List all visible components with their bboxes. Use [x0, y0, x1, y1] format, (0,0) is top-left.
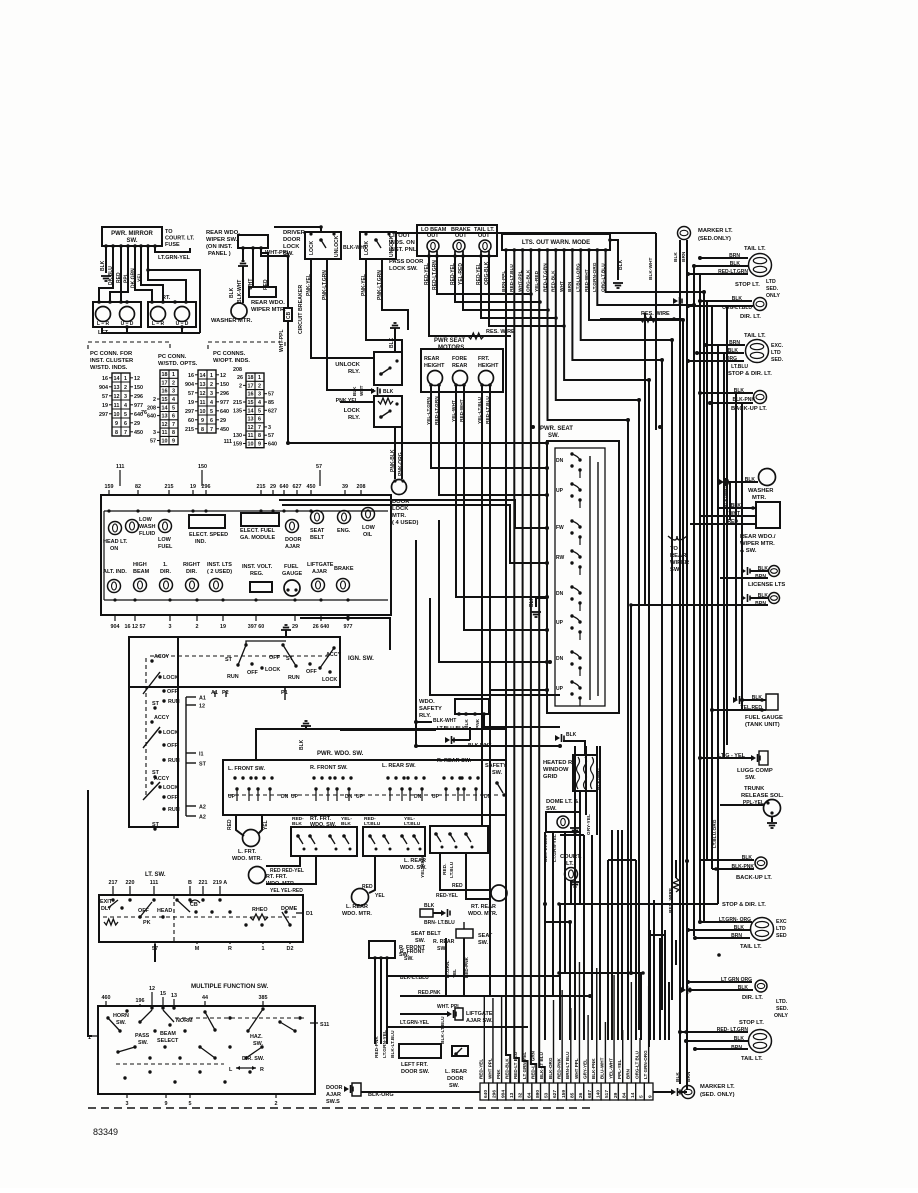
svg-text:FUEL GAUGE: FUEL GAUGE [745, 715, 783, 721]
svg-text:627: 627 [268, 408, 277, 414]
wire blk tail4 [686, 1040, 748, 1042]
svg-text:L – R: L – R [97, 321, 110, 327]
svg-text:RIGHT: RIGHT [183, 562, 201, 568]
cluster bus junction [282, 509, 285, 512]
wire right vertical 6 [723, 353, 725, 758]
cluster bulb L DIR [160, 579, 173, 592]
wire bundle RED-WHT [589, 250, 683, 989]
lights out warning module box [502, 234, 610, 250]
heated rear window grid box [573, 755, 597, 791]
connector grid blk [555, 734, 564, 742]
power mirror switch SW [102, 227, 162, 246]
seat switch internal bus 2 [597, 462, 599, 696]
safety switch blade [495, 781, 503, 793]
svg-text:8: 8 [201, 427, 204, 433]
module pin ORG-BLK [529, 248, 533, 252]
svg-text:STOP LT.: STOP LT. [735, 282, 760, 288]
wire blk-pnk [710, 402, 753, 404]
ground dome [570, 828, 580, 833]
svg-text:16 12 57: 16 12 57 [125, 624, 146, 630]
wire RED [120, 246, 122, 302]
wire weave 13 [544, 973, 546, 1040]
svg-text:RT. REAR: RT. REAR [471, 904, 496, 910]
svg-text:PNK-LT.GRN: PNK-LT.GRN [377, 270, 383, 300]
svg-text:WIPER: WIPER [670, 560, 690, 566]
svg-text:GRID: GRID [543, 774, 558, 780]
svg-text:17: 17 [248, 383, 254, 389]
ignition contact [328, 670, 331, 673]
svg-text:LT.BLU: LT.BLU [449, 861, 455, 878]
svg-text:29: 29 [270, 484, 276, 490]
svg-text:LT.BLU: LT.BLU [731, 364, 748, 370]
cluster bus junction [195, 598, 198, 601]
svg-text:LOCK: LOCK [163, 785, 178, 791]
cluster bus junction [168, 598, 171, 601]
svg-text:10: 10 [162, 439, 168, 445]
trunk release solenoid [764, 800, 781, 817]
tail lamp 4 [749, 1030, 772, 1053]
svg-text:CIRCUIT BREAKER: CIRCUIT BREAKER [298, 285, 304, 334]
wire top feed lock switches [274, 227, 321, 232]
connector dir [681, 986, 690, 994]
svg-text:DOOR: DOOR [285, 537, 302, 543]
cluster bus junction [167, 509, 170, 512]
svg-text:14: 14 [200, 373, 206, 379]
wire cluster 977 tap right [300, 618, 390, 650]
mfs blade [108, 1018, 120, 1031]
svg-text:16: 16 [162, 389, 168, 395]
svg-text:(SED. ONLY): (SED. ONLY) [700, 1092, 735, 1098]
svg-text:SW.: SW. [478, 940, 489, 946]
seat motor pin [488, 383, 492, 387]
rear window wiper switch box [238, 235, 268, 248]
wire mid drops [374, 958, 376, 1035]
svg-text:57: 57 [102, 394, 108, 400]
wire red left [236, 815, 244, 836]
svg-text:PNK-LT.GRN: PNK-LT.GRN [322, 270, 328, 300]
svg-text:13: 13 [162, 414, 168, 420]
module pin LT.BLU-ORG [579, 248, 583, 252]
svg-text:SW.: SW. [670, 567, 681, 573]
connector pin [184, 300, 188, 304]
svg-text:7: 7 [258, 425, 261, 431]
svg-text:OFF: OFF [269, 655, 280, 661]
wire blk seat gnd [536, 598, 547, 607]
svg-text:MOTORS: MOTORS [438, 345, 464, 351]
svg-text:UP: UP [432, 794, 440, 800]
svg-text:AJAR: AJAR [285, 544, 300, 550]
wire weave jog 4 [545, 921, 570, 923]
l rear window switch box [363, 827, 425, 856]
dashed accessory line [150, 655, 330, 657]
wire stub [181, 327, 183, 333]
cluster bus junction [204, 509, 207, 512]
svg-text:5: 5 [189, 1101, 192, 1107]
wire sol gnd [771, 816, 773, 822]
l rear window motor [352, 889, 369, 906]
svg-text:OFF: OFF [167, 743, 178, 749]
svg-text:NORM: NORM [176, 1018, 193, 1024]
ignition contact [294, 664, 297, 667]
wire blk tail3 [688, 929, 750, 931]
svg-text:215: 215 [185, 427, 194, 433]
wire indicator 1b [437, 256, 531, 294]
svg-text:220: 220 [126, 880, 135, 886]
cluster bus junction [319, 598, 322, 601]
svg-text:76: 76 [141, 410, 147, 416]
svg-text:15: 15 [160, 991, 166, 997]
wire seat belt [433, 912, 441, 914]
wire weave 3 [559, 904, 561, 1040]
wire weave 7 [607, 860, 609, 1040]
ground above unlock relay [390, 323, 400, 328]
connector table PC CONNS w/opt left [185, 370, 229, 433]
wire grid top [563, 741, 585, 755]
svg-text:L. REAR SW.: L. REAR SW. [382, 763, 416, 769]
svg-text:BLK-LT.BLU: BLK-LT.BLU [400, 975, 429, 981]
svg-text:57: 57 [150, 439, 156, 445]
svg-text:ELECT. SPEED: ELECT. SPEED [189, 532, 228, 538]
svg-text:( 4 USED): ( 4 USED) [392, 520, 418, 526]
svg-text:WHT. PPL: WHT. PPL [437, 1004, 460, 1010]
res element vertical [673, 878, 679, 892]
svg-text:P1: P1 [281, 690, 288, 696]
wire lt sw drop 57 [154, 944, 156, 962]
svg-text:26: 26 [237, 375, 243, 381]
svg-text:ST: ST [225, 657, 233, 663]
wire red lt grn 2 [680, 1031, 748, 1033]
svg-text:CB: CB [190, 902, 198, 908]
svg-text:215: 215 [233, 400, 242, 406]
wire weave 4 [569, 922, 571, 1040]
svg-text:296: 296 [202, 484, 211, 490]
svg-text:297: 297 [99, 412, 108, 418]
wiper sw pin [251, 246, 255, 250]
seat motor fore rear [453, 371, 468, 386]
svg-text:DN: DN [281, 794, 289, 800]
liftgate ajar switch [447, 1010, 456, 1018]
svg-text:DIR.: DIR. [186, 569, 197, 575]
svg-text:BLK: BLK [383, 389, 394, 395]
wire PNK-BLK [394, 427, 396, 479]
left front door switch box [399, 1044, 441, 1058]
svg-text:PWR SEAT: PWR SEAT [434, 338, 466, 344]
svg-text:RED-PNK: RED-PNK [556, 1057, 561, 1079]
window switch contacts [254, 776, 257, 779]
svg-text:2: 2 [172, 380, 175, 386]
wire indicator 1a [428, 256, 430, 336]
svg-text:AJAR: AJAR [312, 569, 327, 575]
cluster bulb BRAKE [337, 579, 350, 592]
marker lamp top [678, 227, 691, 240]
module pin WHT [562, 248, 566, 252]
svg-text:LT. SW.: LT. SW. [145, 872, 166, 878]
svg-text:135: 135 [233, 408, 242, 414]
indicator lamp LO BEAM OUT [427, 240, 439, 252]
window sub switch blade [382, 834, 389, 844]
resistance wire element [468, 333, 484, 339]
svg-text:TAIL LT.: TAIL LT. [744, 333, 766, 339]
wire wht ppl line [400, 1013, 450, 1015]
seat switch body [456, 929, 473, 938]
cluster bulb LOW WASH FLUID [126, 520, 139, 533]
svg-text:18: 18 [248, 375, 254, 381]
wire strip 14 [630, 982, 632, 1083]
svg-text:ACCY: ACCY [154, 654, 170, 660]
svg-text:PC CONN.: PC CONN. [158, 354, 187, 360]
wire ignition hot feed [246, 641, 286, 645]
wire WHT [252, 248, 254, 287]
svg-text:PWR. SEAT: PWR. SEAT [540, 426, 573, 432]
ignition tap A2 [186, 815, 196, 817]
elect speed ind box [189, 515, 225, 528]
wire strip 627 [553, 1000, 555, 1083]
wire strip 517 [604, 1022, 606, 1083]
wire bundle RED-LT.BLU [514, 250, 519, 1083]
svg-text:8: 8 [258, 433, 261, 439]
connector pin [125, 300, 129, 304]
svg-text:640: 640 [147, 414, 156, 420]
license lamp 2 [769, 593, 780, 604]
rt frt window motor [249, 867, 266, 884]
svg-text:BLK: BLK [292, 821, 302, 827]
svg-text:2: 2 [239, 383, 242, 389]
cluster bus junction [107, 509, 110, 512]
svg-text:P2: P2 [222, 690, 229, 696]
svg-text:MTR.: MTR. [752, 495, 767, 501]
ground pwr wdo [301, 721, 311, 726]
svg-text:GAUGE: GAUGE [282, 571, 303, 577]
svg-text:REAR WDO./: REAR WDO./ [740, 534, 776, 540]
wire lt.grn-org [700, 921, 752, 923]
connector safety [445, 736, 454, 744]
svg-text:BACK-UP LT.: BACK-UP LT. [736, 875, 772, 881]
svg-text:6: 6 [124, 421, 127, 427]
svg-text:RT. FRT.: RT. FRT. [266, 874, 287, 880]
svg-text:8: 8 [172, 430, 175, 436]
wire right vertical 2 [699, 274, 701, 922]
mirror sw pin 5 [133, 244, 137, 248]
ground mirror [101, 276, 111, 281]
indicator lead [453, 254, 457, 258]
svg-text:ON: ON [110, 546, 118, 552]
wire weave 10 [649, 930, 651, 1040]
dir lamp 2 [755, 980, 767, 992]
wire weave 2 [481, 662, 483, 827]
wire court feed [570, 881, 572, 904]
svg-text:REAR WDO.: REAR WDO. [251, 300, 285, 306]
junction [146, 268, 150, 272]
svg-text:SEAT BELT: SEAT BELT [411, 931, 441, 937]
svg-text:57: 57 [316, 464, 322, 470]
wire to rt rear motor 2 [466, 853, 491, 899]
svg-text:29: 29 [220, 418, 226, 424]
svg-text:SW.: SW. [404, 956, 414, 962]
mfs blade [118, 1047, 135, 1052]
mfs dashed line 2 [116, 1063, 224, 1065]
wire dome feeds [544, 832, 546, 973]
wire door sw down [374, 958, 376, 1035]
svg-text:MARKER LT.: MARKER LT. [700, 1084, 735, 1090]
svg-text:HEATED R: HEATED R [543, 760, 573, 766]
svg-text:CB: CB [286, 311, 292, 319]
svg-text:WASH: WASH [139, 524, 156, 530]
window switch contacts [312, 776, 315, 779]
wire PNK-YEL from pass lock [366, 259, 402, 352]
svg-text:LOCK: LOCK [163, 730, 178, 736]
svg-text:LOCK: LOCK [309, 240, 315, 255]
svg-text:HORN: HORN [113, 1013, 129, 1019]
svg-text:RED-BLK: RED-BLK [505, 1058, 510, 1079]
mfs contacts [106, 1016, 109, 1019]
svg-text:111: 111 [150, 880, 158, 886]
mirror sw pin 3 [119, 244, 123, 248]
svg-text:SW.: SW. [745, 775, 756, 781]
svg-text:LT.BLU: LT.BLU [404, 821, 421, 827]
wire seat motor 1a [431, 385, 547, 468]
svg-text:PNK: PNK [475, 718, 481, 729]
svg-text:WDO.: WDO. [419, 699, 435, 705]
svg-text:RED: RED [227, 819, 233, 830]
wire weave 9 [640, 973, 642, 1040]
svg-text:HAZ.: HAZ. [250, 1034, 263, 1040]
wire bundle BRN [572, 250, 662, 1010]
mfs dashed line 1 [175, 1017, 304, 1019]
svg-text:R: R [260, 1067, 264, 1073]
wire right vertical 8 [735, 393, 737, 700]
wire door sw down [386, 958, 388, 1035]
svg-text:12: 12 [162, 422, 168, 428]
cluster bulb DOOR AJAR [286, 520, 299, 533]
mfs blade [140, 1010, 152, 1022]
window sub switch blade [342, 834, 349, 844]
wire yel red [712, 709, 766, 711]
svg-text:INST. LTS: INST. LTS [207, 562, 232, 568]
wire blk backup [700, 392, 753, 394]
svg-text:D2: D2 [287, 946, 294, 952]
svg-text:3: 3 [172, 389, 175, 395]
svg-text:ORG-LT BLU: ORG-LT BLU [634, 1050, 639, 1079]
relay coil lock [378, 398, 393, 404]
wire right mid vertical b [644, 313, 646, 605]
wire brn license [720, 577, 768, 579]
svg-text:PNK-BLK: PNK-BLK [390, 449, 396, 472]
wire left drop [415, 720, 417, 746]
wire P1 down [284, 687, 286, 700]
svg-text:BLK-WHT: BLK-WHT [648, 258, 654, 280]
connector strip cell 32 (RED-LT BLU) [515, 1083, 524, 1100]
wire door sw down [380, 958, 382, 1035]
svg-text:17: 17 [162, 380, 168, 386]
connector strip cell 296 (WHT PPL) [489, 1083, 498, 1100]
svg-text:SAFETY: SAFETY [419, 706, 442, 712]
backup lamp 1 [754, 391, 767, 404]
wire right vertical 4 [711, 306, 713, 869]
power seat motors box [421, 349, 503, 392]
wire YEL [141, 246, 163, 302]
cluster bus junction [293, 598, 296, 601]
svg-text:LOW: LOW [362, 525, 376, 531]
svg-text:5: 5 [258, 408, 261, 414]
svg-text:BLK: BLK [229, 287, 235, 298]
svg-text:SED: SED [776, 933, 787, 939]
power window upper box [256, 729, 506, 760]
wiper sw pin [241, 246, 245, 250]
svg-text:296: 296 [134, 394, 143, 400]
washer motor right [759, 469, 776, 486]
svg-text:LT.BLU: LT.BLU [364, 821, 381, 827]
svg-text:PNK: PNK [496, 1069, 501, 1079]
junction [286, 254, 290, 258]
svg-text:LTS. OUT WARN. MODE: LTS. OUT WARN. MODE [522, 240, 590, 246]
svg-text:RED-LT BLU: RED-LT BLU [513, 1051, 518, 1079]
wire BLK to washer [242, 266, 244, 303]
svg-text:215: 215 [257, 484, 266, 490]
wire blk washer [728, 481, 758, 483]
svg-text:DIR. LT.: DIR. LT. [740, 314, 761, 320]
svg-text:14: 14 [162, 405, 168, 411]
wire brn tail3 [695, 937, 750, 939]
indicator lead [427, 254, 431, 258]
svg-text:L – R: L – R [152, 321, 165, 327]
cluster bulb HIGH BEAM [134, 579, 147, 592]
wire pnk yel to lock relay [340, 401, 374, 403]
svg-text:LOW: LOW [158, 537, 172, 543]
cluster internal bus top [104, 510, 388, 512]
svg-text:5: 5 [172, 405, 175, 411]
seat motor pin [454, 383, 458, 387]
wire WHT-PPL down from CB [287, 321, 289, 443]
wire blk-org stub [678, 1091, 687, 1093]
svg-text:HEAD: HEAD [157, 908, 172, 914]
wire safety relay lt.blu [340, 729, 436, 731]
svg-text:BLK: BLK [675, 1072, 681, 1082]
svg-text:3: 3 [124, 394, 127, 400]
svg-text:297: 297 [185, 409, 194, 415]
svg-text:208: 208 [357, 484, 366, 490]
svg-text:219 A: 219 A [213, 880, 227, 886]
svg-text:GA. MODULE: GA. MODULE [240, 535, 275, 541]
svg-text:15: 15 [162, 397, 168, 403]
svg-text:627: 627 [293, 484, 302, 490]
svg-text:TAIL LT.: TAIL LT. [744, 246, 766, 252]
wire red pnk line [400, 995, 590, 997]
fuel gauge tank unit [766, 694, 778, 710]
cluster bulb LOW FUEL [159, 520, 172, 533]
svg-text:R. REAR SW.: R. REAR SW. [437, 758, 472, 764]
svg-text:(ON INST.: (ON INST. [206, 244, 233, 250]
wire blk license 2 [750, 597, 768, 599]
wire RED [261, 248, 268, 287]
svg-text:SED.: SED. [776, 1006, 789, 1012]
seat motor pin [462, 383, 466, 387]
tap stub A1 [214, 691, 216, 697]
svg-text:LIFTGATE: LIFTGATE [466, 1011, 493, 1017]
svg-text:57: 57 [268, 392, 274, 398]
relay blade unlock [379, 368, 390, 376]
svg-text:19: 19 [102, 403, 108, 409]
cluster bus junction [191, 509, 194, 512]
svg-text:19: 19 [220, 624, 226, 630]
wire blk dir [700, 300, 752, 302]
svg-text:REAR WDO.: REAR WDO. [206, 230, 240, 236]
svg-text:RED: RED [263, 279, 269, 290]
svg-text:WDO. MTR.: WDO. MTR. [266, 881, 296, 887]
wire safety relay left [416, 540, 432, 722]
svg-text:SEAT: SEAT [310, 528, 325, 534]
svg-text:SELECT: SELECT [157, 1038, 179, 1044]
svg-text:ACCY: ACCY [154, 776, 170, 782]
